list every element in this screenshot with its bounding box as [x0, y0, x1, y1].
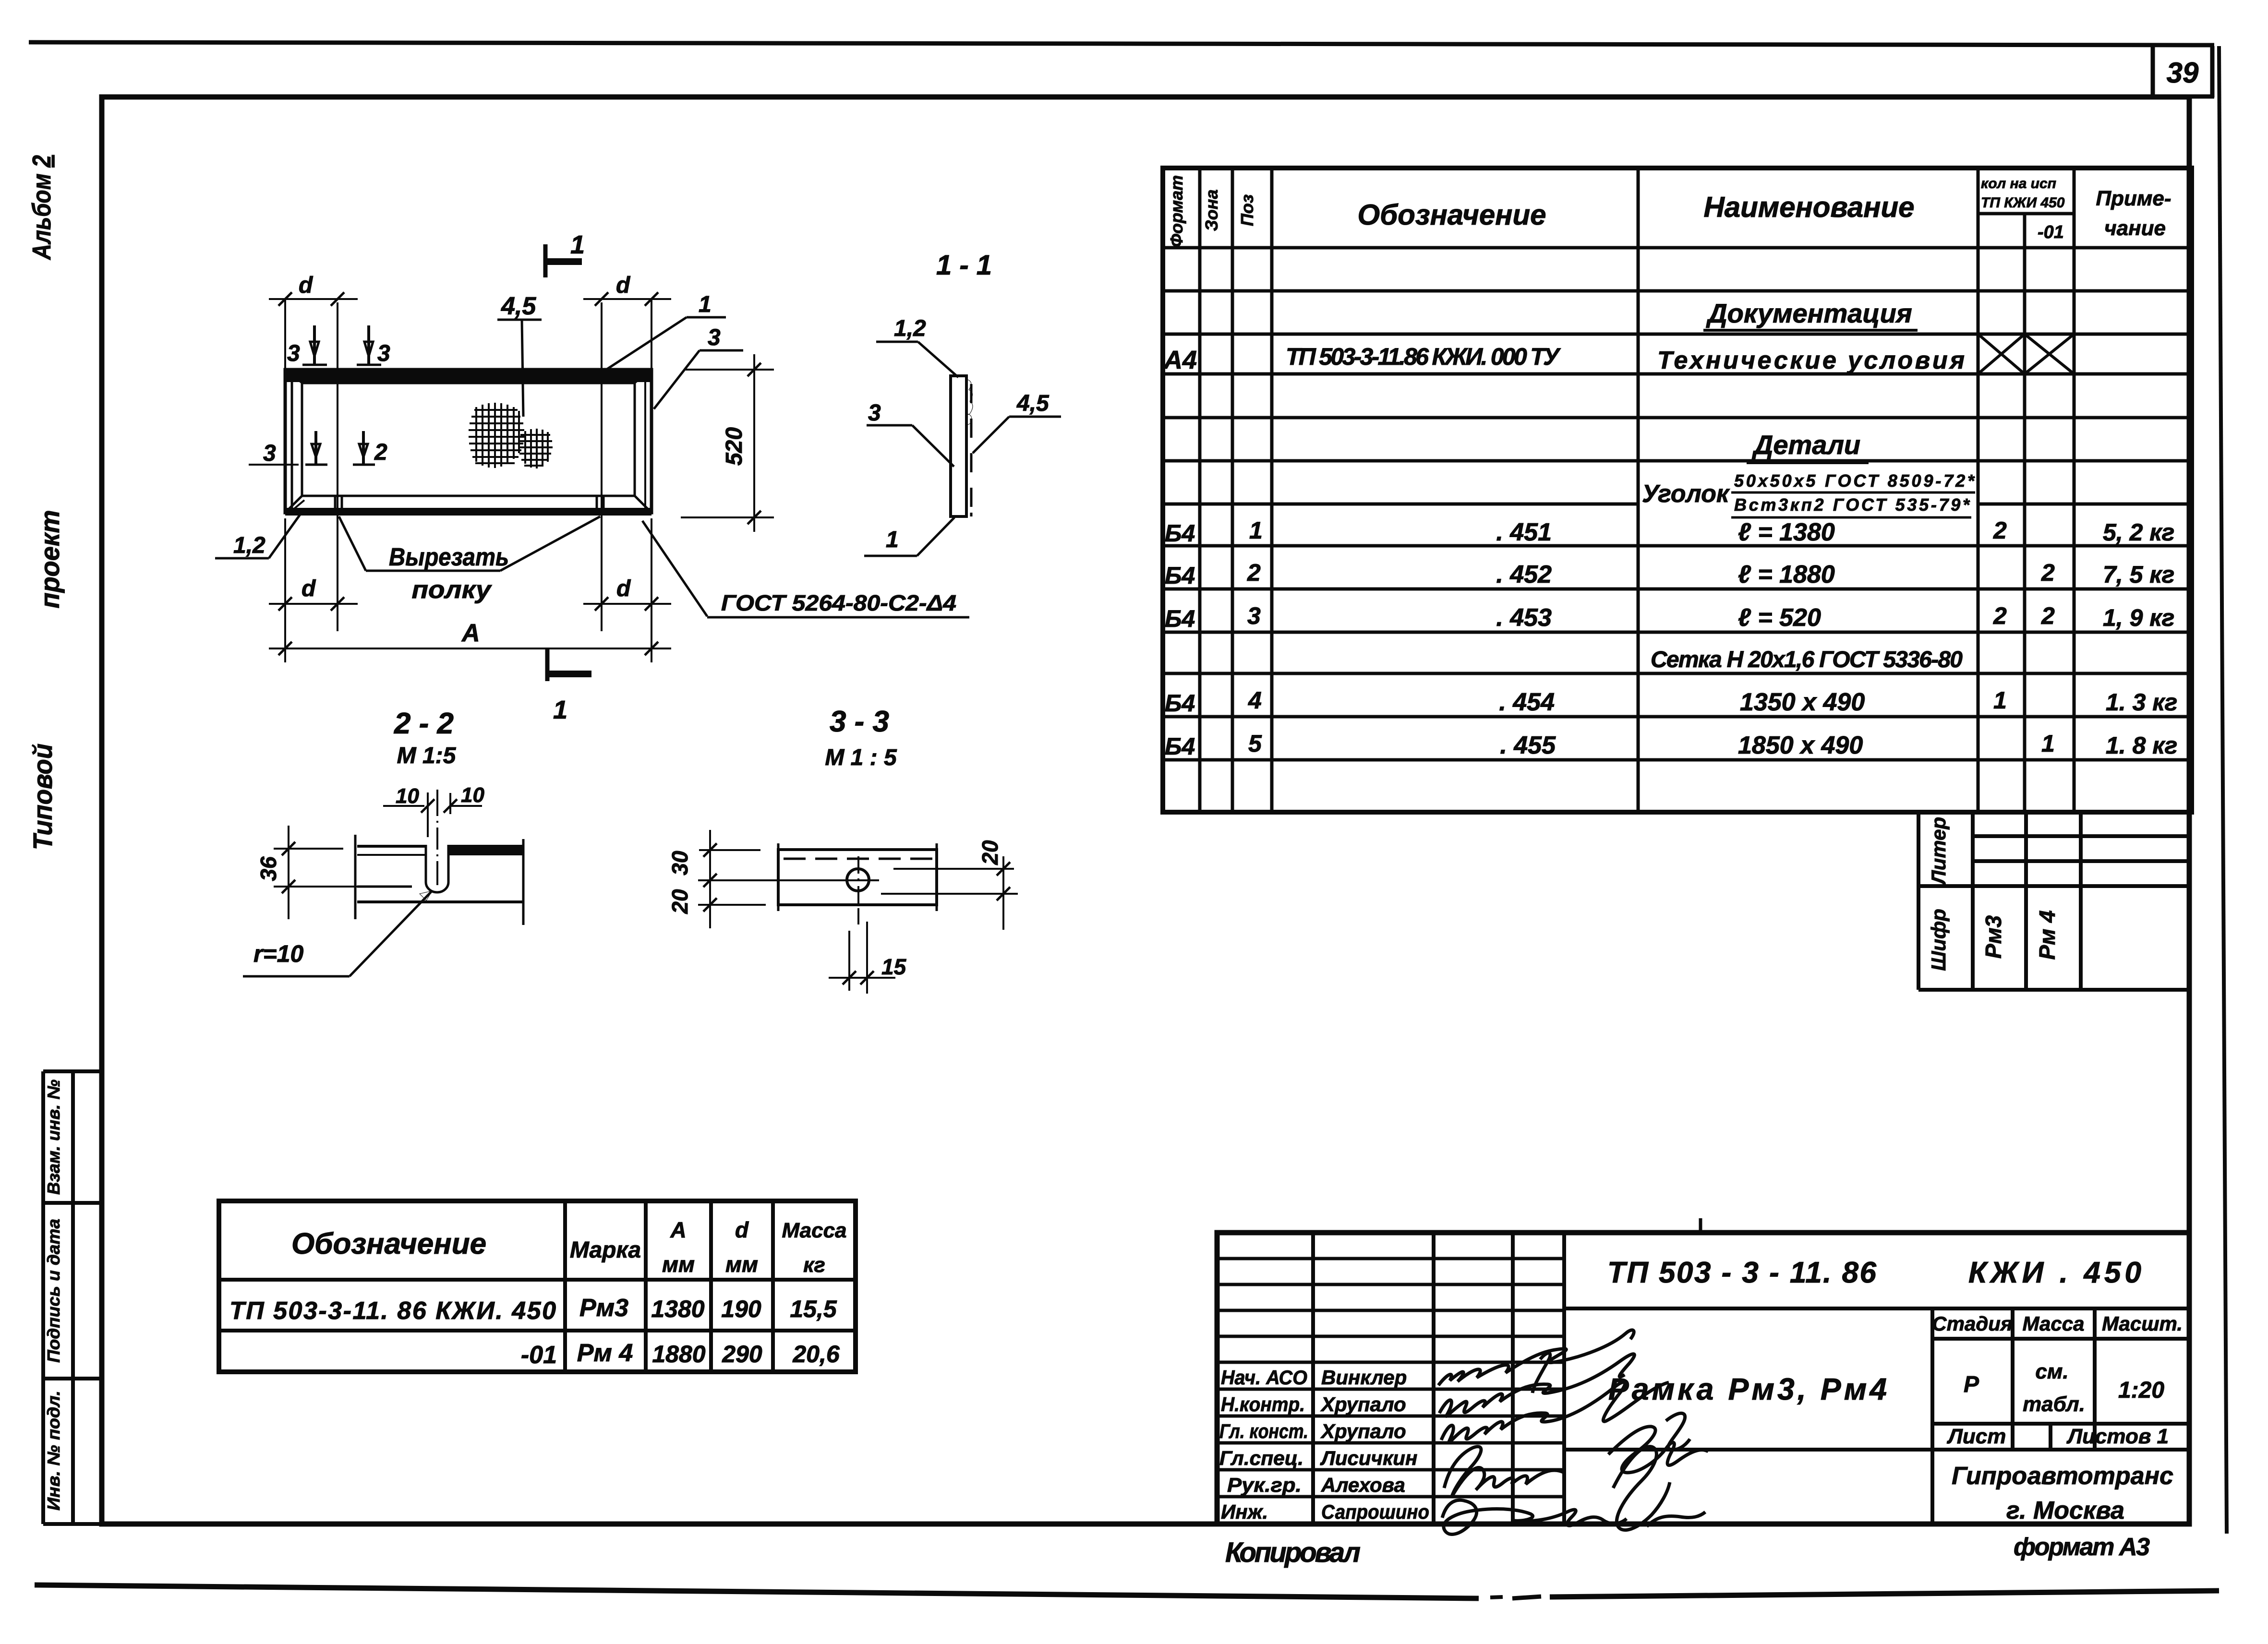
- weld marks inside frame: [305, 431, 327, 465]
- svg-text:Винклер: Винклер: [1321, 1366, 1407, 1389]
- hole: [847, 869, 869, 891]
- svg-text:2: 2: [374, 440, 387, 465]
- svg-text:Алехова: Алехова: [1321, 1474, 1405, 1496]
- svg-text:мм: мм: [662, 1252, 695, 1277]
- svg-text:Зона: Зона: [1202, 190, 1221, 231]
- svg-text:1. 3 кг: 1. 3 кг: [2106, 689, 2177, 716]
- svg-text:2: 2: [2041, 559, 2055, 586]
- svg-text:3: 3: [263, 441, 276, 466]
- svg-text:Масса: Масса: [2023, 1312, 2085, 1335]
- svg-text:r=10: r=10: [253, 940, 303, 967]
- svg-text:. 453: . 453: [1496, 604, 1552, 632]
- svg-text:3: 3: [377, 341, 390, 366]
- svg-text:формат А3: формат А3: [2014, 1533, 2150, 1561]
- svg-text:1880: 1880: [652, 1341, 705, 1368]
- svg-text:d: d: [616, 273, 631, 298]
- svg-text:4,5: 4,5: [1016, 391, 1050, 416]
- svg-text:1: 1: [886, 527, 899, 552]
- svg-text:Инж.: Инж.: [1221, 1500, 1268, 1523]
- svg-text:Альбом 2: Альбом 2: [27, 155, 56, 261]
- svg-text:Инв. № подл.: Инв. № подл.: [44, 1391, 63, 1511]
- frame outer rectangle: [285, 370, 651, 513]
- svg-text:чание: чание: [2104, 216, 2166, 240]
- svg-text:ГОСТ 5264-80-С2-Δ4: ГОСТ 5264-80-С2-Δ4: [721, 590, 956, 615]
- svg-text:Б4: Б4: [1165, 562, 1195, 589]
- dim d bottom-left: [284, 518, 286, 662]
- svg-text:Лисичкин: Лисичкин: [1320, 1447, 1417, 1469]
- svg-text:3: 3: [708, 325, 721, 350]
- svg-text:ℓ = 1380: ℓ = 1380: [1738, 518, 1835, 546]
- bar: [778, 850, 937, 905]
- svg-text:36: 36: [256, 856, 281, 881]
- top scan edge line: [29, 42, 2214, 45]
- svg-text:d: d: [735, 1217, 749, 1242]
- horizontals left part: [1217, 1259, 1564, 1497]
- horizontals right part: [1564, 1308, 2189, 1450]
- dim 36: [274, 848, 343, 850]
- svg-text:ТП 503-3-11. 86 КЖИ. 450: ТП 503-3-11. 86 КЖИ. 450: [229, 1297, 556, 1325]
- section mark 1 (bottom): [545, 648, 550, 681]
- svg-text:Гл. конст.: Гл. конст.: [1219, 1420, 1308, 1442]
- svg-text:Взам. инв. №: Взам. инв. №: [44, 1080, 63, 1195]
- svg-text:Сетка Н 20х1,6 ГОСТ 5336-80: Сетка Н 20х1,6 ГОСТ 5336-80: [1651, 647, 1963, 672]
- dim A: [269, 648, 671, 649]
- svg-text:10: 10: [461, 783, 484, 807]
- svg-text:Нач. АСО: Нач. АСО: [1221, 1366, 1307, 1389]
- svg-text:Б4: Б4: [1165, 690, 1195, 717]
- svg-text:5: 5: [1248, 730, 1262, 757]
- svg-text:А4: А4: [1163, 346, 1197, 374]
- svg-text:3: 3: [1247, 602, 1261, 629]
- svg-text:Документация: Документация: [1706, 298, 1912, 328]
- svg-text:Типовой: Типовой: [27, 744, 58, 850]
- svg-text:полку: полку: [412, 576, 493, 604]
- svg-text:ТП КЖИ 450: ТП КЖИ 450: [1981, 195, 2065, 211]
- svg-text:табл.: табл.: [2023, 1392, 2085, 1416]
- dim d top-right: [601, 302, 603, 631]
- dashed mesh line: [784, 858, 932, 860]
- frame inner rectangle: [302, 383, 635, 496]
- svg-text:г. Москва: г. Москва: [2006, 1497, 2124, 1524]
- svg-text:Приме-: Приме-: [2096, 187, 2171, 210]
- svg-text:1:20: 1:20: [2118, 1378, 2164, 1403]
- svg-text:Шифр: Шифр: [1927, 909, 1950, 971]
- svg-text:10: 10: [396, 784, 419, 808]
- svg-text:1,2: 1,2: [894, 316, 926, 341]
- svg-text:Хрупало: Хрупало: [1320, 1393, 1406, 1416]
- svg-text:Формат: Формат: [1167, 175, 1186, 247]
- bottom notches (cut the shelf): [334, 496, 337, 516]
- svg-text:4,5: 4,5: [501, 292, 536, 320]
- mesh dashed line: [970, 384, 973, 516]
- svg-text:520: 520: [722, 427, 747, 466]
- svg-text:3: 3: [287, 341, 300, 366]
- svg-text:d: d: [616, 576, 631, 601]
- svg-text:3 - 3: 3 - 3: [830, 705, 889, 738]
- sheet number box 39: [2153, 46, 2214, 97]
- svg-text:30: 30: [667, 851, 692, 876]
- centerline: [436, 790, 438, 885]
- svg-text:кг: кг: [803, 1253, 825, 1277]
- frame bottom heavy band: [285, 508, 651, 516]
- svg-text:39: 39: [2167, 57, 2199, 89]
- svg-text:2: 2: [1993, 517, 2007, 544]
- svg-text:1,2: 1,2: [233, 533, 265, 558]
- row lines: [1163, 214, 2192, 760]
- dim 520 right: [686, 369, 774, 371]
- svg-text:Сапрошино: Сапрошино: [1321, 1500, 1429, 1523]
- right dim 20: [893, 868, 1014, 870]
- leader GOST 5264: [642, 521, 707, 616]
- main drawing frame: [102, 97, 2189, 1524]
- svg-text:. 454: . 454: [1499, 688, 1555, 716]
- svg-text:мм: мм: [725, 1252, 758, 1277]
- groove U: [425, 845, 427, 882]
- svg-text:Стадия: Стадия: [1932, 1312, 2012, 1335]
- svg-text:Марка: Марка: [570, 1237, 641, 1263]
- dim d top-left: [284, 300, 286, 369]
- svg-text:Р: Р: [1964, 1372, 1979, 1397]
- svg-text:А: А: [670, 1217, 686, 1242]
- callout trapezoid ВЫРЕЗАТЬ ПОЛКУ: [339, 516, 366, 571]
- left margin stamp table: [43, 1071, 102, 1524]
- svg-text:Лист: Лист: [1947, 1425, 2006, 1448]
- frame top heavy band: [285, 370, 651, 382]
- svg-text:1: 1: [1993, 687, 2007, 714]
- svg-text:2 - 2: 2 - 2: [394, 707, 454, 740]
- svg-text:М 1 : 5: М 1 : 5: [825, 745, 897, 770]
- svg-text:М 1:5: М 1:5: [397, 743, 457, 768]
- angle bar in section: [951, 376, 966, 516]
- svg-text:Обозначение: Обозначение: [1357, 199, 1546, 231]
- weld blobs: [966, 379, 973, 415]
- section mark 1 (top): [543, 244, 548, 277]
- svg-text:1: 1: [553, 696, 567, 724]
- svg-text:1: 1: [699, 292, 712, 317]
- svg-text:1. 8 кг: 1. 8 кг: [2106, 732, 2177, 759]
- svg-text:Рук.гр.: Рук.гр.: [1227, 1474, 1302, 1496]
- svg-text:ТП 503 - 3 - 11. 86: ТП 503 - 3 - 11. 86: [1607, 1256, 1877, 1289]
- svg-text:Масшт.: Масшт.: [2102, 1312, 2183, 1335]
- svg-text:20,6: 20,6: [792, 1341, 840, 1368]
- svg-text:1: 1: [2041, 730, 2055, 757]
- svg-text:Поз: Поз: [1237, 194, 1257, 226]
- svg-text:Рм3: Рм3: [1981, 915, 2006, 959]
- svg-text:Наименование: Наименование: [1703, 191, 1914, 223]
- svg-text:d: d: [299, 273, 314, 298]
- svg-text:1 - 1: 1 - 1: [936, 250, 992, 281]
- svg-text:15,5: 15,5: [790, 1296, 837, 1322]
- svg-text:Масса: Масса: [782, 1219, 846, 1242]
- svg-text:1: 1: [1249, 517, 1263, 544]
- svg-text:ℓ = 520: ℓ = 520: [1738, 604, 1821, 632]
- svg-text:А: А: [461, 619, 480, 647]
- svg-text:1, 9 кг: 1, 9 кг: [2103, 604, 2174, 631]
- svg-text:ℓ = 1880: ℓ = 1880: [1738, 561, 1835, 588]
- svg-text:20: 20: [977, 840, 1002, 865]
- svg-text:190: 190: [721, 1296, 761, 1322]
- svg-text:Хрупало: Хрупало: [1320, 1420, 1406, 1442]
- svg-text:Рм 4: Рм 4: [2035, 910, 2060, 960]
- svg-text:ТП 503-3-11.86 КЖИ. 000 ТУ: ТП 503-3-11.86 КЖИ. 000 ТУ: [1286, 343, 1561, 370]
- svg-text:Обозначение: Обозначение: [291, 1227, 486, 1260]
- svg-text:Технические условия: Технические условия: [1657, 347, 1965, 374]
- bottom scan lines: [35, 1585, 1479, 1598]
- svg-text:. 452: . 452: [1496, 561, 1552, 588]
- svg-text:КЖИ . 450: КЖИ . 450: [1968, 1256, 2141, 1289]
- stray mark above title block: [1699, 1218, 1702, 1233]
- svg-text:Вырезать: Вырезать: [389, 543, 509, 571]
- svg-text:20: 20: [667, 889, 692, 914]
- svg-text:15: 15: [881, 954, 907, 979]
- left dims 30 / 20: [699, 849, 760, 851]
- mesh patch (wire net symbol): [469, 403, 524, 468]
- svg-text:проект: проект: [35, 510, 65, 609]
- bottom dim 15: [848, 931, 850, 991]
- svg-text:Б4: Б4: [1165, 733, 1195, 760]
- svg-text:Б4: Б4: [1165, 605, 1195, 632]
- column lines: [1200, 168, 2074, 812]
- svg-text:Рм3: Рм3: [579, 1294, 628, 1322]
- crossed cells: [1978, 334, 2074, 374]
- svg-text:Гл.спец.: Гл.спец.: [1219, 1447, 1303, 1469]
- verticals: [1313, 1233, 2095, 1524]
- svg-text:Рм 4: Рм 4: [577, 1339, 633, 1367]
- svg-text:2: 2: [1247, 559, 1261, 586]
- svg-text:Листов 1: Листов 1: [2066, 1425, 2169, 1448]
- svg-text:4: 4: [1248, 687, 1262, 714]
- svg-text:Литер: Литер: [1927, 817, 1950, 886]
- bar with groove: [357, 845, 426, 848]
- svg-text:Подпись и дата: Подпись и дата: [44, 1219, 63, 1363]
- svg-text:3: 3: [868, 400, 881, 426]
- svg-text:1: 1: [570, 230, 585, 259]
- svg-text:5, 2 кг: 5, 2 кг: [2103, 519, 2174, 546]
- signature squiggles: [1438, 1330, 1708, 1535]
- svg-text:1380: 1380: [651, 1296, 704, 1322]
- svg-text:. 451: . 451: [1496, 518, 1552, 546]
- svg-text:Н.контр.: Н.контр.: [1221, 1393, 1305, 1416]
- corner mitres: [285, 370, 302, 383]
- svg-text:7, 5 кг: 7, 5 кг: [2103, 561, 2174, 588]
- svg-text:1350 х 490: 1350 х 490: [1740, 688, 1865, 716]
- svg-text:1850 х 490: 1850 х 490: [1738, 732, 1863, 759]
- svg-text:см.: см.: [2035, 1360, 2068, 1383]
- svg-text:. 455: . 455: [1500, 732, 1556, 759]
- dim d bottom-right: [651, 518, 652, 662]
- right outer vertical border: [2219, 46, 2227, 1534]
- svg-text:Детали: Детали: [1752, 430, 1860, 460]
- svg-text:кол на исп: кол на исп: [1981, 176, 2056, 192]
- svg-text:Вст3кп2 ГОСТ 535-79*: Вст3кп2 ГОСТ 535-79*: [1734, 495, 1970, 515]
- svg-text:-01: -01: [2038, 222, 2064, 242]
- svg-text:2: 2: [2041, 602, 2055, 629]
- svg-text:Гипроавтотранс: Гипроавтотранс: [1952, 1462, 2173, 1490]
- svg-text:d: d: [302, 576, 316, 601]
- svg-text:Уголок: Уголок: [1642, 480, 1730, 508]
- svg-text:Б4: Б4: [1165, 520, 1195, 547]
- svg-text:290: 290: [722, 1341, 762, 1368]
- svg-text:2: 2: [1993, 602, 2007, 629]
- labels 1 and 3 top-right diagonals: [591, 317, 687, 379]
- svg-text:50х50х5 ГОСТ 8509-72*: 50х50х5 ГОСТ 8509-72*: [1734, 471, 1975, 491]
- svg-text:-01: -01: [521, 1341, 557, 1369]
- svg-text:Копировал: Копировал: [1225, 1537, 1361, 1568]
